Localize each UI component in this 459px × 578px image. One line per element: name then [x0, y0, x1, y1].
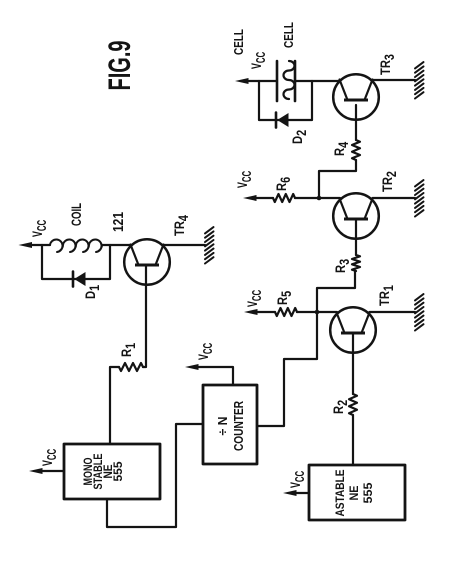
wire coil to TR4 collector	[102, 244, 131, 246]
wire counter output to node A	[257, 271, 355, 426]
ground (TR4)	[205, 227, 214, 263]
label TR3	[378, 54, 397, 75]
wire monostable to counter	[107, 424, 203, 527]
wire TR4 emitter	[164, 244, 206, 246]
label VCC (R6)	[235, 170, 255, 188]
label VCC (counter)	[196, 342, 216, 360]
svg-text:VCC: VCC	[235, 170, 255, 188]
svg-text:R4: R4	[332, 142, 351, 156]
wire monostable output to R1	[110, 367, 119, 444]
ground (TR2)	[415, 180, 424, 216]
svg-text:VCC: VCC	[196, 342, 216, 360]
node B junction dot	[317, 196, 322, 201]
label TR1	[377, 285, 396, 306]
label TR2	[380, 171, 399, 192]
svg-text:NE: NE	[347, 486, 361, 501]
coil L1	[50, 239, 102, 252]
label VCC (monostable)	[40, 448, 60, 466]
power VCC (astable)	[283, 490, 309, 496]
label COIL	[69, 203, 84, 226]
wire node B to R4	[319, 160, 356, 198]
svg-text:TR3: TR3	[378, 54, 397, 75]
label R5	[275, 291, 294, 305]
wire TR2 emitter	[373, 197, 416, 199]
power VCC (cell)	[235, 78, 277, 84]
svg-text:TR2: TR2	[380, 171, 399, 192]
svg-text:D2: D2	[290, 130, 309, 144]
block divide-by-N counter	[203, 385, 257, 464]
label D2	[290, 130, 309, 144]
transistor TR3	[333, 74, 379, 120]
svg-text:R1: R1	[119, 343, 138, 357]
label CELL (plate)	[281, 22, 296, 48]
wire R1 to TR4 base	[143, 265, 146, 367]
title FIG.9	[101, 41, 137, 91]
transistor TR1	[330, 307, 376, 353]
svg-text:R5: R5	[275, 291, 294, 305]
svg-text:R2: R2	[331, 400, 350, 414]
resistor R3	[352, 255, 360, 271]
power VCC (R6)	[243, 195, 273, 201]
svg-text:÷ N: ÷ N	[216, 417, 230, 436]
diode D1	[73, 272, 86, 287]
svg-text:VCC: VCC	[40, 448, 60, 466]
resistor R5	[275, 308, 297, 316]
resistor R2	[349, 394, 357, 415]
block monostable NE 555	[64, 444, 160, 499]
wire R5 to TR1 collector	[297, 311, 337, 313]
svg-text:TR1: TR1	[377, 285, 396, 306]
svg-text:TR4: TR4	[172, 215, 191, 236]
wire R2 to TR1 base	[352, 334, 354, 394]
power VCC (counter)	[185, 364, 233, 385]
svg-text:VCC: VCC	[288, 470, 308, 488]
wire R4 to TR3 base	[355, 105, 357, 140]
label VCC (cell)	[249, 51, 269, 69]
svg-text:COIL: COIL	[69, 203, 84, 226]
svg-text:VCC: VCC	[30, 219, 50, 237]
node A junction dot	[315, 310, 320, 315]
label VCC (astable)	[288, 470, 308, 488]
label R3	[333, 259, 352, 273]
label R4	[332, 142, 351, 156]
label R1	[119, 343, 138, 357]
svg-text:VCC: VCC	[249, 51, 269, 69]
label VCC (R5)	[245, 289, 265, 307]
svg-text:COUNTER: COUNTER	[232, 401, 246, 451]
cell electrolyte squiggle	[284, 61, 295, 99]
label 121	[110, 212, 127, 232]
label D1	[83, 285, 102, 299]
wire TR1 emitter	[370, 311, 416, 313]
svg-text:FIG.9: FIG.9	[101, 41, 137, 91]
wire R3 to TR2 base	[355, 220, 357, 255]
block astable NE 555	[309, 465, 405, 520]
diode D2	[276, 113, 289, 128]
svg-text:ASTABLE: ASTABLE	[333, 470, 347, 517]
label TR4	[172, 215, 191, 236]
power VCC (R5)	[244, 309, 275, 315]
wire D2 branch	[259, 81, 312, 120]
power VCC (coil)	[19, 242, 51, 248]
label R2	[331, 400, 350, 414]
svg-text:D1: D1	[83, 285, 102, 299]
wire astable to R2	[352, 415, 354, 465]
svg-text:R6: R6	[274, 177, 293, 191]
label VCC (coil)	[30, 219, 50, 237]
cell plates	[277, 61, 295, 101]
svg-text:CELL: CELL	[231, 29, 246, 55]
label CELL (top)	[231, 29, 246, 55]
resistor R6	[273, 194, 295, 202]
svg-text:CELL: CELL	[281, 22, 296, 48]
svg-text:121: 121	[110, 212, 127, 232]
wire cell to TR3 collector	[295, 80, 340, 82]
ground (TR3)	[415, 62, 424, 98]
wire D1 branch	[42, 245, 110, 279]
resistor R4	[352, 140, 360, 160]
svg-text:555: 555	[113, 461, 125, 482]
wire R6 to TR2 collector	[295, 197, 340, 199]
ground (TR1)	[415, 294, 424, 330]
power VCC (monostable)	[29, 468, 64, 474]
svg-text:R3: R3	[333, 259, 352, 273]
svg-text:555: 555	[361, 482, 375, 503]
label R6	[274, 177, 293, 191]
transistor TR2	[333, 193, 379, 239]
resistor R1	[119, 363, 143, 371]
svg-text:VCC: VCC	[245, 289, 265, 307]
transistor TR4	[124, 239, 170, 285]
wire TR3 emitter	[373, 79, 416, 81]
